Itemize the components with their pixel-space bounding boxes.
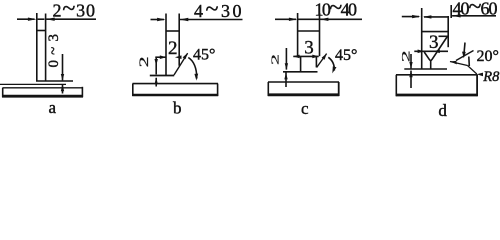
node O: arrowhead pointing left at line left end [293,55,300,59]
node V: arrowhead pointing left inside [423,15,432,18]
wire: base plate left edge [267,82,269,96]
wire: base plate second top line [3,87,83,89]
svg-text:2: 2 [168,38,178,59]
wire: plate top edge [166,30,179,32]
wire: gap dimension upper shaft [285,48,287,70]
wire: dimension line under 4~30 [180,19,243,21]
svg-text:20°: 20° [477,48,499,65]
wire: dimension line dash [424,16,448,18]
wire: base plate left edge [2,88,4,97]
svg-text:45°: 45° [335,47,357,64]
svg-text:2: 2 [269,54,281,65]
wire: R8 leader line [468,66,477,75]
wire: groove shoulder line [439,35,449,37]
wire: J groove funnel [424,37,447,60]
wire: base plate bottom edge [396,94,478,97]
wire: base plate left edge [395,75,397,96]
wire: bevel face line extended [174,53,188,75]
svg-text:2~30: 2~30 [53,0,96,22]
wire: base plate right edge [476,75,478,96]
wire: dimension line under 10~40 [320,18,362,20]
svg-text:3: 3 [429,32,439,53]
wire: dimension line under 40~60 [452,15,496,17]
wire: base plate top surface line [0,83,66,85]
wire: root face dimension line left arm [155,56,165,58]
wire: 20 degree upper arm [456,51,474,61]
wire: angle reference tick arrow [464,43,465,54]
node AD: R8 leader arrowhead [477,73,483,77]
svg-text:40~60: 40~60 [453,0,498,20]
wire: root nub line [430,61,432,69]
node W: right arrowhead pointing left [452,14,461,17]
wire: gap dimension upper shaft [410,54,412,68]
wire: gap dimension lower shaft [155,78,157,87]
svg-text:a: a [49,98,57,117]
wire: base plate bottom edge [268,93,339,96]
wire: left outside arrow shaft [402,16,419,18]
wire: base plate top edge [268,81,339,83]
wire: root nub right edge [315,57,317,67]
wire: gap dimension upper shaft [155,57,157,74]
wire: base plate right edge [217,84,219,96]
wire: dimension line under text 2~30 [46,18,96,20]
wire: plate top edge [422,31,449,33]
svg-text:2: 2 [137,56,151,67]
wire: base plate right edge [338,82,340,96]
wire: dimension line through plate [298,18,320,20]
node N: right arrowhead [320,18,329,21]
wire: base plate top edge [396,74,477,76]
wire: right extension line [450,5,452,18]
wire: small cross stroke [468,57,471,67]
wire: gap dimension lower shaft [285,72,287,87]
node H: arrowhead pointing left at bevel root [175,55,182,59]
node E: left arrowhead [157,18,166,21]
svg-text:10~40: 10~40 [315,0,358,21]
node L: arrowhead at arc bottom [194,74,198,81]
wire: plate left face / extension line [36,13,38,81]
svg-text:2: 2 [400,50,413,62]
wire: root nub left edge [300,57,302,71]
node M: left arrowhead [289,18,298,21]
svg-text:R8: R8 [482,69,500,85]
wire: gap dimension lower shaft [410,71,412,88]
svg-text:0~3: 0~3 [46,34,62,68]
wire: base plate bottom edge [132,94,218,97]
wire: plate right face [319,13,321,56]
wire: 45 degree arc [328,57,334,70]
node Q: arrowhead at bevel top [322,53,327,60]
node C: down arrowhead at plate bottom [61,74,64,81]
node T: up arrowhead [284,73,287,80]
wire: plate right face [178,14,180,66]
node S: down arrowhead [285,63,288,70]
circuit-free technical drawing: T-joint weld groove types a-d [0,0,500,118]
wire: base plate bottom edge [2,95,83,98]
svg-text:4~30: 4~30 [194,0,242,23]
wire: gap dimension upper shaft [62,54,64,80]
node AA: up arrowhead [409,70,412,77]
wire: plate left face [421,8,423,69]
node AB: down arrowhead on tick [462,52,466,59]
wire: plate bottom bar [283,71,318,73]
node AC: arrowhead at lower arm left end [450,61,457,65]
wire: base plate right edge [81,87,83,97]
wire: plate right face / extension line [45,14,47,82]
node P: arrowhead pointing right at line right end [312,55,319,59]
wire: left outside arrow shaft [151,19,165,21]
wire: gap dimension lower shaft [62,85,64,94]
wire: bevel face line [317,54,327,68]
node D: up arrowhead at base top [61,84,64,91]
wire: dimension line dash between extension lines [38,18,45,20]
wire: plate bottom bar [404,68,447,70]
wire: 45 degree arc [188,58,197,79]
node A: left arrowhead pointing right [28,18,37,21]
node Y: arrowhead pointing left [433,50,440,54]
wire: plate left face [165,14,167,76]
node J: up arrowhead below bar [155,77,158,84]
wire: plate right face [447,16,449,47]
node F: right arrowhead [180,18,189,21]
wire: left outside arrow shaft [275,18,296,20]
wire: root face dimension line [293,55,318,57]
node Z: down arrowhead [409,62,412,69]
wire: plate bottom edge with right extension [36,80,73,82]
node B: right arrowhead pointing left [46,18,55,21]
wire: plate left face [297,13,299,58]
svg-text:c: c [301,99,309,118]
svg-text:b: b [173,99,182,118]
node K: arrowhead at bevel line top [183,53,188,60]
wire: plate top edge [37,30,46,32]
wire: left outside dimension arrow shaft [17,18,35,20]
wire: 20 degree lower arm [450,62,468,66]
node U: left arrowhead [412,15,421,18]
wire: plate bottom edge bar with left extension [150,75,174,77]
wire: plate top edge [298,30,320,32]
node I: down arrowhead at plate bottom [155,59,158,66]
svg-text:d: d [438,101,447,118]
wire: root dimension line [414,50,448,52]
node R: arrowhead at arc bottom [332,66,336,73]
wire: base plate left edge [132,84,134,96]
wire: base plate top edge [133,83,219,85]
node X: arrowhead pointing right [418,50,425,54]
node G: arrowhead pointing right at plate face [160,55,167,59]
svg-text:45°: 45° [193,47,215,64]
